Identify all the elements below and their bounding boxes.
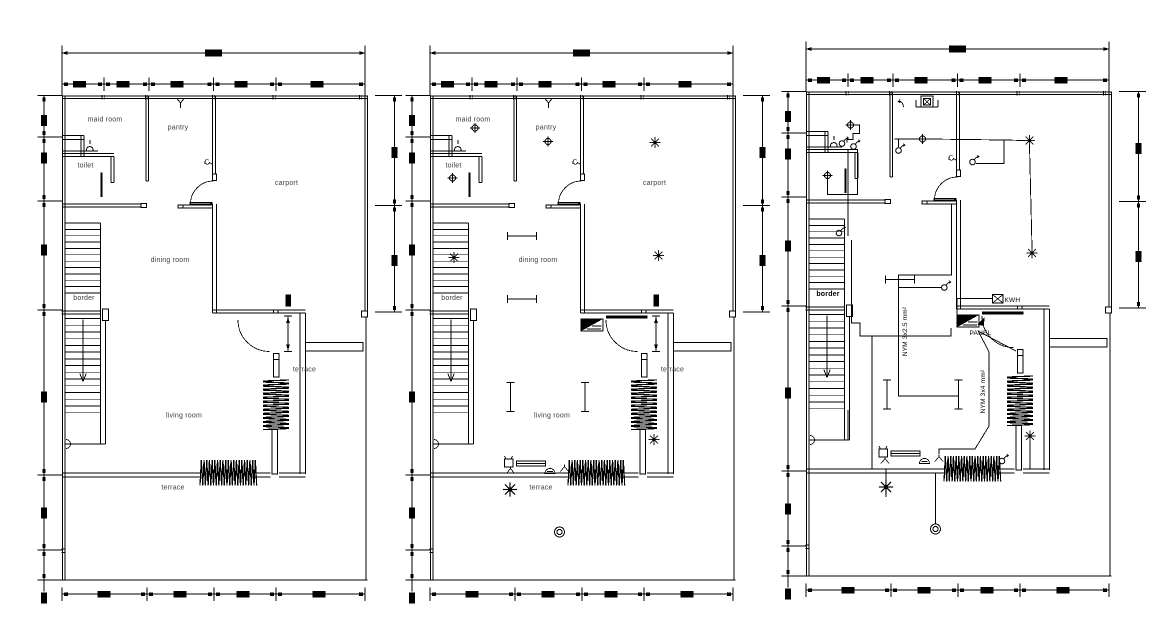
wire lamp to fans	[927, 139, 1025, 141]
lamp toilet	[823, 171, 833, 181]
fluorescent dining 2	[508, 295, 537, 303]
wire bell	[935, 473, 937, 524]
fan terrace left	[503, 482, 517, 496]
fan terrace left	[879, 480, 893, 494]
lamp maid	[846, 120, 856, 130]
wire toilet lamp	[828, 179, 854, 194]
floor plan 1 (architectural)	[38, 46, 403, 604]
junction fan box	[916, 96, 938, 107]
floor plan 3 (electrical wiring)	[782, 42, 1147, 600]
wire switch drop 2	[853, 149, 858, 195]
switch stairs	[836, 226, 845, 236]
wire stairs down	[852, 240, 952, 336]
switch maid 1	[839, 137, 848, 147]
svg-text:border: border	[816, 291, 839, 298]
lamp maid room	[470, 123, 480, 133]
switch carport	[970, 155, 979, 165]
ceiling hook Y	[545, 98, 553, 108]
tv and bench	[879, 446, 943, 464]
fan carport 2	[653, 250, 664, 261]
ceiling hook Y	[177, 98, 185, 108]
bell circle	[555, 527, 565, 537]
svg-text:NYM 3x4 mm²: NYM 3x4 mm²	[980, 369, 987, 413]
room labels	[73, 117, 316, 492]
lamp toilet	[448, 173, 458, 183]
wire switch carport	[976, 141, 1004, 164]
room labels	[441, 117, 684, 492]
switch terrace	[999, 454, 1008, 464]
wire dining switch	[899, 287, 942, 289]
hook symbol	[898, 100, 903, 108]
svg-text:KWH: KWH	[1005, 297, 1021, 304]
wire nym 3x2.5	[899, 204, 959, 396]
wire living drop	[871, 336, 873, 469]
lamp pantry	[918, 134, 928, 144]
floor plan 2 (lighting layout)	[406, 46, 771, 604]
switch pantry	[896, 144, 905, 154]
wire maid lamp to switches	[847, 125, 860, 143]
fan carport 2	[1027, 248, 1038, 259]
distribution panel	[957, 312, 1024, 328]
wire living door	[816, 410, 848, 440]
fan carport 1	[650, 137, 661, 148]
fan terrace right	[649, 434, 660, 445]
svg-text:NYM 3x2.5 mm²: NYM 3x2.5 mm²	[902, 306, 909, 356]
wire kwh to panel	[957, 299, 993, 317]
switch maid 2	[851, 140, 860, 150]
tv and bench	[505, 456, 569, 474]
wire fan to fan	[1030, 146, 1033, 248]
fluorescent living 1	[507, 383, 515, 412]
wire panel to door	[980, 332, 1016, 351]
bell circle	[931, 524, 941, 534]
switch dining	[942, 281, 951, 291]
wire switch pantry	[898, 139, 900, 147]
fluorescent living 2	[581, 383, 589, 412]
wire pantry-carport	[895, 138, 919, 140]
wire terrace fan left	[885, 469, 887, 497]
wire switch drop 1	[847, 150, 849, 236]
wire nym 3x4	[939, 331, 989, 455]
lamp pantry	[543, 137, 553, 147]
distribution panel	[581, 316, 648, 332]
panel arrow	[977, 318, 985, 327]
fan stairs	[449, 252, 460, 263]
fluorescent dining	[886, 276, 915, 284]
wire terrace fan right	[1029, 441, 1031, 469]
fluorescent living 2	[955, 380, 963, 409]
fan terrace right	[1025, 431, 1036, 442]
fan carport 1	[1024, 135, 1035, 146]
fluorescent dining 1	[508, 232, 537, 240]
kwh meter	[993, 295, 1004, 304]
fluorescent living 1	[883, 380, 891, 409]
